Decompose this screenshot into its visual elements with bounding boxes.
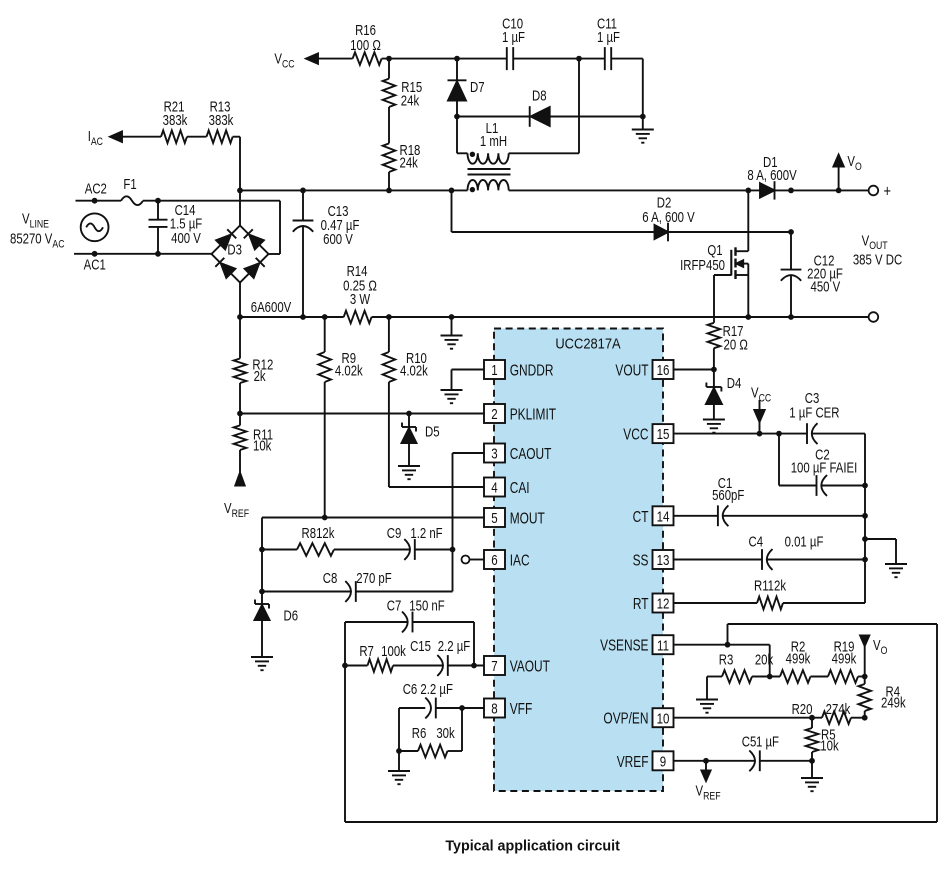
- svg-text:2.2 µF: 2.2 µF: [438, 638, 470, 655]
- svg-text:0.01 µF: 0.01 µF: [785, 533, 824, 550]
- svg-text:MOUT: MOUT: [510, 509, 546, 527]
- svg-text:10k: 10k: [253, 437, 272, 454]
- svg-text:7: 7: [491, 658, 497, 675]
- svg-text:UCC2817A: UCC2817A: [555, 334, 621, 351]
- svg-text:3 W: 3 W: [350, 291, 371, 308]
- svg-text:R7: R7: [359, 643, 374, 660]
- svg-text:274k: 274k: [826, 701, 851, 718]
- svg-text:C6 2.2 µF: C6 2.2 µF: [403, 681, 453, 698]
- svg-text:GNDDR: GNDDR: [510, 361, 554, 379]
- svg-text:VFF: VFF: [510, 699, 533, 717]
- svg-text:270 pF: 270 pF: [356, 570, 391, 587]
- svg-text:10k: 10k: [820, 737, 839, 754]
- svg-text:IRFP450: IRFP450: [680, 257, 725, 274]
- svg-text:R112k: R112k: [754, 577, 786, 594]
- svg-text:Typical application circuit: Typical application circuit: [445, 839, 620, 855]
- svg-text:VCC: VCC: [623, 425, 648, 443]
- svg-text:249k: 249k: [881, 694, 906, 711]
- svg-text:C15: C15: [410, 638, 431, 655]
- svg-text:12: 12: [657, 595, 670, 612]
- svg-text:600 V: 600 V: [323, 231, 353, 248]
- svg-text:4.02k: 4.02k: [335, 362, 363, 379]
- svg-text:C5: C5: [742, 733, 757, 750]
- svg-text:D3: D3: [227, 241, 242, 258]
- svg-text:+: +: [884, 183, 892, 201]
- svg-text:1 µF CER: 1 µF CER: [789, 404, 839, 421]
- svg-text:20k: 20k: [755, 651, 774, 668]
- svg-text:14: 14: [657, 508, 670, 525]
- svg-text:D5: D5: [425, 423, 440, 440]
- svg-text:450 V: 450 V: [811, 278, 841, 295]
- svg-text:24k: 24k: [400, 154, 419, 171]
- svg-text:CAOUT: CAOUT: [510, 444, 552, 462]
- svg-text:CAI: CAI: [510, 478, 530, 496]
- svg-text:OVP/EN: OVP/EN: [603, 709, 648, 727]
- svg-text:RT: RT: [633, 594, 649, 612]
- svg-text:150 nF: 150 nF: [409, 597, 444, 614]
- svg-text:C7: C7: [387, 597, 402, 614]
- svg-text:8: 8: [491, 700, 497, 717]
- svg-text:499k: 499k: [832, 650, 857, 667]
- svg-text:400 V: 400 V: [171, 230, 201, 247]
- svg-text:1: 1: [491, 362, 497, 379]
- svg-text:100 µF FAIEI: 100 µF FAIEI: [791, 459, 858, 476]
- svg-text:6A600V: 6A600V: [251, 299, 292, 316]
- svg-text:10: 10: [657, 710, 670, 727]
- svg-text:D8: D8: [532, 87, 547, 104]
- svg-text:1.2 nF: 1.2 nF: [410, 525, 442, 542]
- svg-text:SS: SS: [633, 551, 649, 569]
- svg-text:5: 5: [491, 510, 497, 527]
- svg-text:R812k: R812k: [302, 525, 335, 542]
- svg-text:560pF: 560pF: [712, 487, 744, 504]
- svg-text:C8: C8: [323, 570, 338, 587]
- svg-text:VOUT: VOUT: [615, 361, 649, 379]
- svg-text:VREF: VREF: [617, 752, 649, 770]
- svg-text:VSENSE: VSENSE: [600, 636, 648, 654]
- svg-text:C4: C4: [749, 533, 764, 550]
- svg-text:D7: D7: [470, 79, 485, 96]
- svg-text:1 µF: 1 µF: [597, 29, 620, 46]
- svg-text:6: 6: [491, 552, 497, 569]
- svg-text:VAOUT: VAOUT: [510, 657, 551, 675]
- svg-text:2: 2: [491, 406, 497, 423]
- svg-text:385 V DC: 385 V DC: [853, 251, 902, 268]
- svg-text:100 Ω: 100 Ω: [350, 37, 381, 54]
- svg-text:13: 13: [657, 552, 670, 569]
- svg-text:9: 9: [660, 753, 666, 770]
- svg-text:383k: 383k: [209, 112, 234, 129]
- svg-text:1 µF: 1 µF: [502, 29, 525, 46]
- svg-text:1 µF: 1 µF: [756, 733, 779, 750]
- svg-text:IAC: IAC: [510, 551, 530, 569]
- svg-text:2k: 2k: [254, 368, 266, 385]
- svg-text:D6: D6: [284, 607, 299, 624]
- svg-text:PKLIMIT: PKLIMIT: [510, 405, 557, 423]
- svg-text:16: 16: [657, 362, 670, 379]
- svg-text:24k: 24k: [401, 92, 420, 109]
- svg-text:R3: R3: [719, 651, 734, 668]
- svg-text:30k: 30k: [436, 725, 455, 742]
- svg-text:R20: R20: [792, 701, 813, 718]
- svg-text:8 A, 600V: 8 A, 600V: [747, 167, 797, 184]
- svg-text:20 Ω: 20 Ω: [724, 336, 749, 353]
- svg-text:CT: CT: [633, 507, 649, 525]
- svg-text:100k: 100k: [381, 643, 406, 660]
- svg-text:1 mH: 1 mH: [480, 133, 507, 150]
- svg-text:4: 4: [491, 479, 497, 496]
- svg-text:3: 3: [491, 445, 497, 462]
- svg-text:11: 11: [657, 637, 669, 654]
- svg-text:383k: 383k: [163, 112, 188, 129]
- svg-text:D4: D4: [727, 375, 742, 392]
- svg-text:15: 15: [657, 426, 670, 443]
- svg-text:R6: R6: [412, 725, 427, 742]
- svg-text:AC2: AC2: [85, 180, 107, 197]
- svg-text:C9: C9: [387, 525, 402, 542]
- svg-text:4.02k: 4.02k: [400, 362, 428, 379]
- svg-text:6 A, 600 V: 6 A, 600 V: [642, 209, 695, 226]
- svg-text:F1: F1: [123, 176, 136, 193]
- svg-text:AC1: AC1: [84, 256, 106, 273]
- svg-text:499k: 499k: [786, 650, 811, 667]
